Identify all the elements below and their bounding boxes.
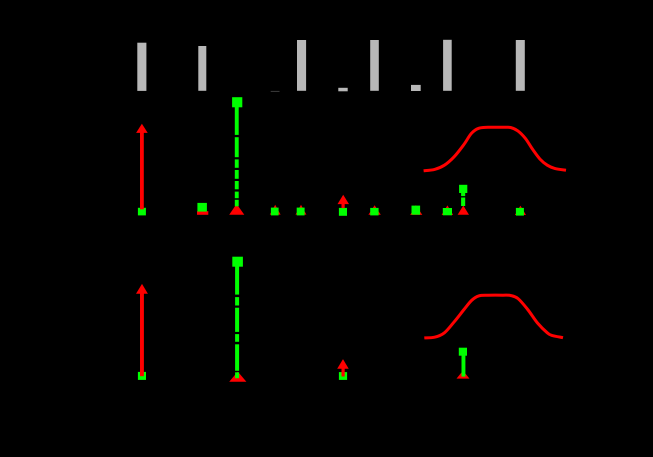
upper green dashed stem at x=237 bbox=[235, 107, 239, 206]
lower red arrow at x=343 bbox=[337, 359, 349, 376]
upper green square at x=142 bbox=[138, 208, 146, 216]
upper green square at x=300 bbox=[297, 208, 305, 216]
upper green square at x=274 bbox=[271, 208, 279, 216]
upper green square at x=203 (raised) bbox=[197, 203, 207, 212]
upper red triangle at x=416 bbox=[410, 205, 422, 215]
lower green square at x=142 bbox=[138, 372, 146, 380]
upper red triangle at x=300 bbox=[296, 205, 307, 215]
upper green stem at x=463 (short, dashed) bbox=[461, 193, 465, 206]
upper red triangle at x=520 bbox=[515, 206, 526, 215]
lower red arrow at x=142 bbox=[136, 284, 148, 376]
lower red envelope curve bbox=[424, 295, 563, 338]
lower green square at top of stem x=238 bbox=[232, 257, 243, 267]
upper green square at x=343 bbox=[339, 208, 347, 216]
upper red triangle at x=463 bbox=[458, 206, 469, 215]
upper green square at top of stem x=463 bbox=[459, 185, 467, 193]
gray histogram bar 6 bbox=[370, 40, 379, 91]
gray histogram bar 4 bbox=[297, 40, 306, 91]
upper green square at x=446 bbox=[443, 208, 452, 215]
gray histogram bar 3 (zero height, dark sliver) bbox=[271, 91, 280, 92]
upper red triangle at x=374 bbox=[368, 205, 380, 215]
gray histogram bar 7 (short) bbox=[411, 85, 421, 91]
upper green square at top of stem x=237 bbox=[232, 97, 242, 107]
upper red dash marker at x=203 bbox=[197, 211, 208, 215]
lower red triangle at x=463 bbox=[457, 371, 470, 379]
lower green square at top of stem x=463 bbox=[459, 348, 467, 356]
upper green square at x=374 bbox=[370, 208, 378, 216]
upper red triangle at x=274 bbox=[270, 205, 281, 215]
gray histogram bar 5 (short) bbox=[338, 88, 347, 92]
lower green dashed stem at x=238 bbox=[235, 266, 239, 378]
lower red triangle at x=238 bbox=[229, 372, 246, 382]
upper red arrow at x=142 bbox=[136, 124, 148, 210]
lower green stem at x=463 bbox=[462, 355, 466, 377]
upper green square at x=416 bbox=[412, 206, 421, 215]
gray histogram bar 1 bbox=[137, 43, 146, 91]
upper red triangle at x=237 bbox=[229, 204, 244, 215]
gray histogram bar 8 bbox=[443, 40, 452, 91]
gray histogram bar 2 bbox=[198, 46, 206, 91]
upper red envelope curve bbox=[424, 127, 566, 171]
lower green square at x=343 bbox=[339, 372, 347, 380]
upper green square at x=520 bbox=[516, 208, 524, 216]
gray histogram bar 9 bbox=[516, 40, 525, 91]
upper red triangle at x=446 bbox=[442, 205, 454, 215]
upper red arrow at x=343 bbox=[338, 195, 350, 208]
